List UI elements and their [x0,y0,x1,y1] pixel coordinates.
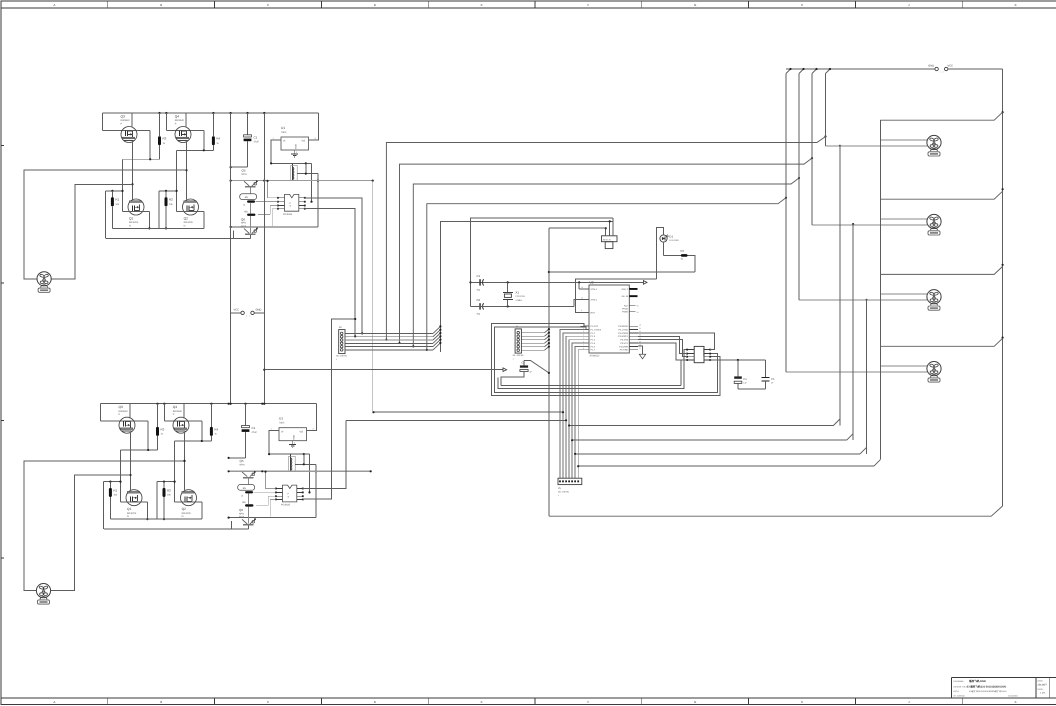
svg-text:NPN: NPN [239,512,244,515]
svg-text:JMSH 3V: JMSH 3V [603,238,612,241]
svg-text:P3.7/RD: P3.7/RD [620,349,629,352]
wire rail buzzer lower [440,221,612,352]
wire channel inner [495,327,718,393]
wire b gray rail [228,470,372,472]
title block right column [1038,679,1048,694]
label C1a [254,136,260,144]
resistor R6a [245,211,256,216]
svg-text:GND: GND [928,64,934,67]
wire U4 pin1 loop [498,350,687,389]
svg-text:H: H [801,700,803,704]
resistor R4b [210,427,213,436]
label R2b [167,488,172,496]
wire XTAL line with arrow terminal [471,281,648,285]
svg-text:U1: U1 [279,417,283,421]
wire lower motor R1 [826,145,928,147]
wire a Q6 emitter pedestal [233,231,250,239]
wire a R3 leads [159,113,161,159]
ic U4 driver [694,346,705,362]
wire b R4 leads [210,404,212,441]
svg-text:VO: VO [300,430,304,433]
svg-text:N: N [129,224,131,227]
svg-text:10: 10 [639,323,641,326]
svg-text:E: E [481,700,483,704]
svg-text:P1.4: P1.4 [591,339,596,342]
svg-text:NPN: NPN [240,464,245,467]
svg-text:U1: U1 [281,126,285,130]
wire XTAL1 stub [579,282,589,312]
wire b gate link segment Q4 [175,440,212,502]
motor R3 [927,290,941,311]
wire rail motor2 feed [398,157,813,344]
svg-text:P1.3: P1.3 [591,335,596,338]
frame column letters top [53,3,1016,7]
transistor Q5b [242,471,256,485]
label Q6b [239,508,245,519]
label opto a [283,213,293,216]
label U1b [271,417,315,445]
wire a gate link segment Q4 [177,149,214,211]
svg-text:AT89C52: AT89C52 [590,355,601,358]
label D1 [669,234,679,242]
svg-text:Q4: Q4 [173,405,177,409]
wire hook motor R3 [880,266,1002,274]
svg-text:CRYSTAL: CRYSTAL [515,295,526,298]
wire cap bottoms [738,388,766,390]
transistor Q3b [119,417,135,433]
regulator U1b [279,428,307,441]
wire rail to opto-a return [372,411,564,413]
svg-text:BY: CWENBI: BY: CWENBI [954,694,966,697]
svg-text:47uF: 47uF [254,141,260,144]
svg-text:N: N [184,224,186,227]
wire a R2 bottom lead [165,206,167,229]
wire b Q4 source down to Q2 [183,433,185,490]
label R1b [113,488,118,496]
svg-text:A: A [53,3,55,7]
wire C2 leads [501,361,550,386]
svg-text:P3.2/INT0: P3.2/INT0 [618,332,629,335]
svg-text:2: 2 [348,336,349,339]
wire a R5-R6 link [249,203,251,233]
wire a U1 output to top rail [309,113,319,140]
svg-text:Q2: Q2 [182,507,186,511]
wire rail bundle to motor3 [574,299,868,455]
transistor Q4a [175,127,191,143]
svg-text:R1: R1 [115,198,119,202]
wire motor M2 left loop [24,460,186,591]
resistor R2a [165,197,168,206]
wire opto-a out A drop [305,198,364,335]
svg-text:1: 1 [940,71,941,74]
U2 ALE PSEN pin stubs [629,305,638,314]
label R1a [115,198,120,206]
transistor Q2a [183,199,199,215]
svg-text:A8..15: A8..15 [622,295,629,298]
wire lower motor R4 [786,371,927,373]
optocoupler U3b [283,485,297,502]
label Q1b [127,507,137,518]
wire a gate link segment Q3 [123,158,160,211]
svg-text:C1: C1 [254,136,258,140]
label Q2b [182,507,192,518]
opto a left pins [277,197,285,210]
wire bundle P1 to J5 [560,330,589,479]
power terminal GND [928,64,938,70]
svg-text:P1.6: P1.6 [591,345,596,348]
sounder LS1 [602,236,618,249]
wire a Q4 drain to top rail [185,113,187,128]
transistor Q6b [242,518,256,525]
svg-text:9: 9 [581,309,582,312]
U2 right P3 pin stubs [629,323,641,350]
wire GND riser motor R4 [785,74,787,372]
wire rail motor4 feed [426,197,787,351]
wire b R1 bottom lead [109,497,111,519]
label X1 [515,290,526,301]
svg-text:4: 4 [348,342,349,345]
label Q3b [119,405,129,416]
wire b coil to opto feed [295,454,317,517]
svg-text:29: 29 [637,311,639,314]
U2 bus stub A8-15 [629,295,637,297]
label Q4a [175,115,185,126]
svg-text:P1.5: P1.5 [591,342,596,345]
wire P3 pins to U4 [638,333,715,360]
wire a U1 input [270,140,312,164]
wire U4 output to caps [710,359,766,361]
wire gray drop to J3 rail [372,181,374,413]
wire upper motor R3 [880,293,927,295]
svg-text:GND: GND [293,434,296,439]
svg-text:B: B [160,3,162,7]
wire VCC feed to sounder [548,228,606,516]
wire b Q3 through line [101,404,149,450]
wire opto-a out B drop [305,209,357,338]
label U1a [273,126,317,154]
wire b gate link segment Q3 [121,449,158,502]
svg-text:Q5: Q5 [242,169,246,173]
connector J1 VCC-GND [231,309,265,318]
svg-text:H: H [801,3,803,7]
svg-text:CHANGED:: CHANGED: [1008,694,1018,697]
svg-text:F: F [587,700,589,704]
bottom rail a [112,227,203,229]
title block [952,677,1056,698]
svg-text:P3.0/RXD: P3.0/RXD [618,325,628,328]
svg-text:GND: GND [256,309,262,312]
U4 left pins [686,349,694,361]
svg-text:DESIGN TITLE:: DESIGN TITLE: [954,685,969,688]
svg-text:PROG: PROG [622,308,628,311]
wire motor M2 right loop [51,475,131,591]
svg-text:1: 1 [246,314,247,317]
wire a Q3 through line [103,113,151,159]
wire opto-b out B riser [303,318,357,499]
svg-text:9013: 9013 [241,225,247,228]
svg-text:7805: 7805 [281,131,287,134]
ground symbol below U2 [638,346,646,359]
svg-text:P3.3/INT1: P3.3/INT1 [618,335,629,338]
resistor R2b [163,488,166,497]
wire upper motor R4 [880,365,927,367]
wire a R1 top link [106,190,124,239]
svg-text:Q5: Q5 [240,459,244,463]
svg-text:GND: GND [295,144,298,149]
svg-text:R2: R2 [169,198,173,202]
svg-text:9013: 9013 [239,516,245,519]
svg-text:R4: R4 [216,137,220,141]
wire a opto input links [255,180,277,226]
wires J4 fan to MCU bundle [521,328,550,350]
svg-text:P3.4/T0: P3.4/T0 [620,339,628,342]
svg-text:P3.5/T1: P3.5/T1 [620,342,628,345]
svg-text:E:\遥控飞机\121-2012126220\遥控飞机.DS: E:\遥控飞机\121-2012126220\遥控飞机.DSN [969,690,1007,693]
svg-text:P3.1/TXD: P3.1/TXD [619,328,629,331]
wire b Q4 drain to top rail [183,404,185,419]
svg-text:A: A [53,700,55,704]
svg-text:Q1: Q1 [127,507,131,511]
transistor Q1a [128,199,144,215]
H-bridge module b top rail [101,403,317,405]
svg-text:Q3: Q3 [121,115,125,119]
U2 bus stubs AD0-7 [629,288,637,290]
bottom rail b [110,518,201,520]
wires J3 to rails [345,325,442,352]
svg-text:E: E [481,3,483,7]
svg-text:5: 5 [348,346,349,349]
wire b Q6 emitter pedestal [231,521,248,529]
svg-text:XTAL1: XTAL1 [591,288,598,291]
wire b R1 top link [104,481,122,530]
wire a R2 top link [159,190,178,229]
U2 left P1 pin stubs [580,323,589,350]
U4 right pins [704,349,711,361]
resistor R6b [243,501,254,506]
wire upper motor R1 [880,139,927,141]
wire R7 to VCC line [549,255,695,272]
wire GND riser motor R1 [825,74,827,146]
svg-text:XTAL2: XTAL2 [591,299,598,302]
svg-text:C5: C5 [771,378,775,381]
capacitor C2 [520,362,533,374]
svg-text:SIL-100-06: SIL-100-06 [558,490,570,493]
wire b Q4 through line [164,404,201,441]
svg-text:R1: R1 [113,488,117,492]
wire reset to MCU [576,279,657,313]
wire arrow terminal [264,368,506,372]
wire motor1 tee vertical [839,146,841,426]
wire bottom VCC rail [549,506,1003,516]
frame row ticks [1,146,5,559]
transistor Q3a [121,127,137,143]
wire b Q1 through line [121,502,149,520]
svg-text:C1: C1 [252,426,256,430]
motor M2 [36,584,50,605]
motor R1 [927,135,941,156]
svg-text:2013/6/7: 2013/6/7 [1038,684,1048,687]
ground symbol below U1b [289,441,296,448]
inductor Lb [289,454,296,471]
svg-text:E:\遥控飞机\121-2012126220.DSN: E:\遥控飞机\121-2012126220.DSN [967,685,1006,689]
svg-text:C2: C2 [522,362,526,365]
U2 right pin labels [618,288,629,352]
diode D1 LED [660,235,669,242]
wire rail to opto-b return [346,419,567,421]
label C1b [252,426,258,434]
label Q3a [121,115,131,126]
capacitor C6 crystal lower [477,298,484,315]
microcontroller U2 [589,281,629,358]
power terminal VCC [940,64,954,73]
wire rail buzzer upper [469,218,613,307]
label R3a [163,137,167,145]
svg-text:NPN: NPN [242,173,247,176]
svg-text:P3.6/WR: P3.6/WR [619,345,628,348]
U2 left pin labels [591,288,602,352]
motor M1 [37,272,51,293]
svg-text:C6: C6 [477,298,481,302]
transistor Q2b [181,490,197,506]
svg-text:遥控飞机.DSN: 遥控飞机.DSN [969,679,986,683]
svg-text:P1.0/T2: P1.0/T2 [591,325,599,328]
capacitor C1a [230,113,252,168]
motor R2 [927,214,941,235]
title block texts [954,679,1019,697]
wire b U1 output to top rail [307,404,317,431]
svg-text:12MHz: 12MHz [515,299,522,302]
resistor R5b [238,485,255,498]
svg-text:PSEN: PSEN [622,311,628,314]
svg-text:Q3: Q3 [119,405,123,409]
svg-text:R3: R3 [163,137,167,141]
svg-text:47uF: 47uF [252,431,258,434]
label Q1a [129,217,139,228]
capacitor C5 [762,360,775,389]
wire b Q3 drain to top rail [129,404,131,419]
wire a Q1 through line [123,211,151,229]
svg-text:30: 30 [637,305,639,308]
svg-text:1 of 1: 1 of 1 [1040,692,1046,695]
svg-text:B: B [160,700,162,704]
svg-text:C3: C3 [743,378,747,381]
svg-text:DATE:: DATE: [1038,679,1044,682]
svg-text:LED-RED: LED-RED [669,239,679,242]
wire upper motor R2 [880,218,927,220]
ground symbol below U1a [291,150,298,157]
wire D1 top [656,228,663,279]
svg-text:Q2: Q2 [184,217,188,221]
svg-text:3: 3 [348,339,349,342]
wire sounder pins [605,218,614,236]
wire C2 ground run [501,385,681,387]
capacitor C1 crystal upper [477,274,484,291]
svg-text:Q6: Q6 [239,508,243,512]
crystal X1 [503,282,513,306]
wire VCC right bus vertical [1002,69,1004,506]
wire GND riser motor R2 [811,74,813,225]
motor R4 [927,362,941,383]
connector J3 [336,326,348,361]
wire a gray rail [230,180,374,182]
svg-text:1: 1 [348,332,349,335]
label opto b [281,504,291,507]
wire rail motor1 feed [385,135,826,340]
resistor R1b [109,488,112,497]
resistor R1a [111,197,114,206]
svg-text:2: 2 [249,314,250,317]
svg-text:SIL-100-06: SIL-100-06 [336,355,348,358]
wire a Q3 drain to top rail [131,113,133,128]
svg-text:AD0..7: AD0..7 [621,288,628,291]
label R7 [681,249,685,261]
svg-text:VI: VI [281,430,284,433]
wire rail bundle to motor1 [568,145,841,427]
transistor Q4b [173,417,189,433]
wire a gate pulldown rail [106,238,251,240]
wire b Q6 collector line [228,517,316,519]
wire motor2 tee vertical [852,224,854,440]
wire b R2 bottom lead [163,497,165,520]
wire b R2 top link [157,481,176,520]
svg-text:17: 17 [639,347,641,350]
wire b R3 leads [157,404,159,450]
svg-text:VI: VI [283,140,286,143]
svg-text:19: 19 [581,286,583,289]
svg-text:R2: R2 [167,488,171,492]
svg-text:11: 11 [639,327,641,330]
svg-text:PC4N35: PC4N35 [283,213,293,216]
label R3b [161,427,165,435]
opto b right pins [297,488,304,501]
wire rail bundle to motor4 [577,460,880,468]
connector J5 [558,478,582,497]
svg-text:6: 6 [348,349,349,352]
svg-text:P1.7: P1.7 [591,349,596,352]
svg-text:RST: RST [591,311,596,314]
label Q4b [173,405,183,416]
transistor Q6a [244,227,258,234]
wire a Q2 through line [177,211,204,228]
wire b Q2 through line [175,502,202,519]
capacitor C1b [228,404,250,459]
svg-text:PC4N35: PC4N35 [281,504,291,507]
svg-text:SIL-100-06: SIL-100-06 [513,354,525,357]
svg-text:ALE: ALE [624,305,629,308]
svg-text:N: N [182,515,184,518]
wire VCC to right bus [948,68,1003,70]
svg-text:Q6: Q6 [241,217,245,221]
optocoupler U3a [285,194,299,211]
svg-text:U2: U2 [590,281,594,285]
wire hook motor R2 [880,191,1002,199]
svg-text:Q4: Q4 [175,115,179,119]
wire b R5-R6 link [247,493,249,523]
resistor R4a [212,136,215,145]
wire opto-b out A riser [303,420,346,488]
wire channel outer [491,323,720,395]
label Q2a [184,217,194,228]
resistor R3b [156,427,159,436]
label Q5a [242,169,247,177]
connector J4 [513,326,525,361]
svg-text:2: 2 [943,71,944,74]
wire GND top rail [786,68,935,74]
wire motor M1 left loop [24,170,186,279]
wire XTAL2 line [471,300,590,308]
svg-text:VCC: VCC [948,64,954,67]
wire b Q3 source down to Q1 [129,433,131,490]
